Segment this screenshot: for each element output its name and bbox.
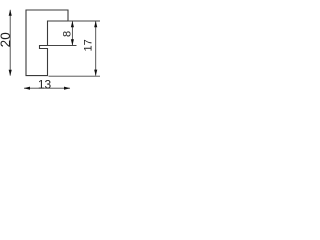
dimension 13 arrow left	[24, 87, 30, 90]
dimension 8 line	[71, 21, 73, 46]
dimension 8 arrow top	[71, 21, 74, 27]
dimension 13 line	[24, 87, 70, 89]
dimension 20 line	[9, 10, 11, 76]
profile outline	[26, 10, 68, 76]
dimension 13 arrow right	[64, 87, 70, 90]
svg-text:20: 20	[0, 32, 13, 47]
dimension 17 line	[95, 21, 97, 76]
dimension 17 arrow bottom	[94, 70, 97, 76]
dimension 17 arrow top	[94, 21, 97, 27]
extension line middle right (y=45.5)	[48, 45, 77, 47]
dimension 8 arrow bottom	[71, 39, 74, 45]
extension line bottom right (y=76.2)	[49, 75, 101, 77]
dimension 20 arrow bottom	[9, 70, 12, 76]
dimension 20 arrow top	[9, 10, 12, 16]
svg-text:13: 13	[38, 77, 52, 91]
svg-text:8: 8	[62, 31, 74, 37]
svg-text:17: 17	[83, 39, 95, 51]
extension line top right (y=21)	[68, 20, 100, 22]
